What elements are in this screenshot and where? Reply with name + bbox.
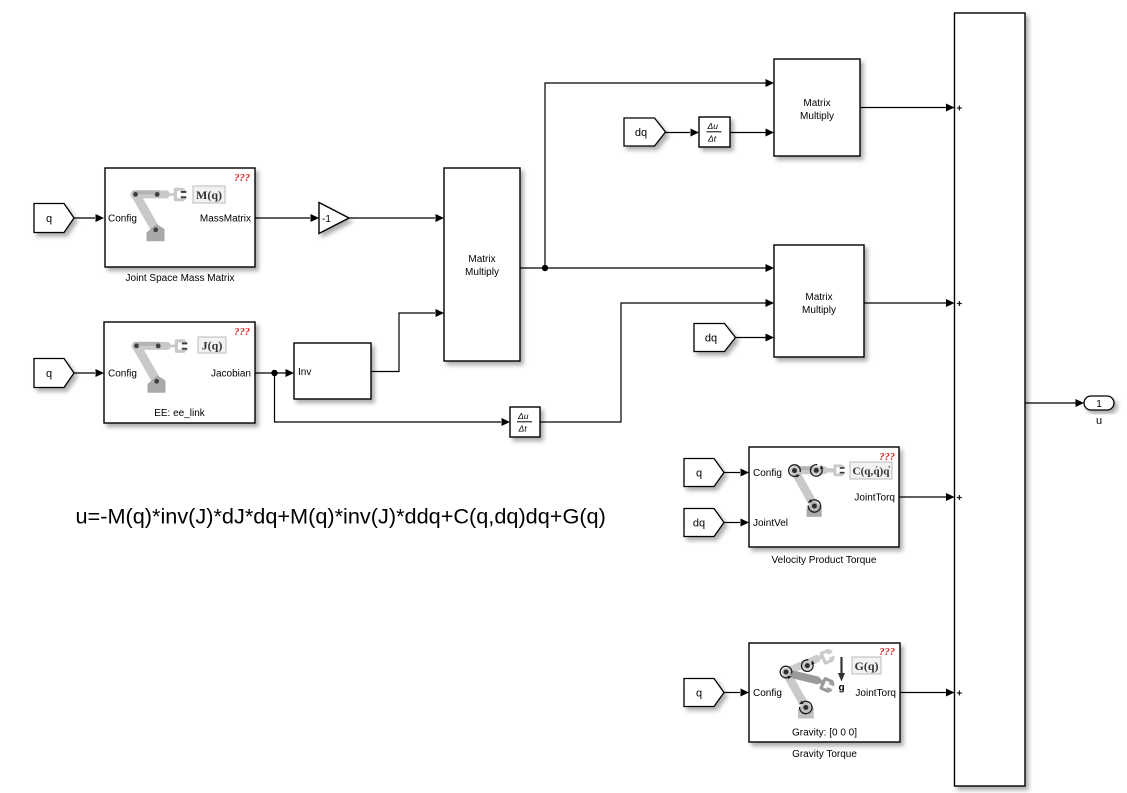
svg-text:Multiply: Multiply [802,305,836,316]
wire q4 to GravityTorque Config [724,689,749,697]
block Velocity Product Torque [749,447,899,547]
svg-text:???: ??? [879,647,895,658]
wire Add to outport u [1025,399,1084,407]
inport dq2 [694,324,736,352]
svg-text:C(q,q)q: C(q,q)q [853,466,891,478]
block Matrix Multiply 3 [774,245,864,357]
block Add (sum) [955,13,1026,786]
wire dq3 to VelocityProductTorque JointVel [724,519,749,527]
svg-text:Gravity Torque: Gravity Torque [792,749,857,760]
svg-text:Multiply: Multiply [465,267,499,278]
svg-text:Matrix: Matrix [803,98,830,109]
svg-text:dq: dq [635,127,647,139]
svg-text:Config: Config [753,468,782,479]
svg-text:q: q [696,468,702,480]
inport q2 [34,359,74,388]
wire MassMatrix to gain [255,214,319,222]
svg-text:-1: -1 [322,214,331,225]
svg-text:Multiply: Multiply [800,111,834,122]
wire derivative1 to MatrixMultiply2 input2 [730,129,774,137]
svg-text:Jacobian: Jacobian [211,369,251,380]
svg-text:dq: dq [693,518,705,530]
derivative block 2 [510,407,540,437]
block Matrix Multiply 1 [444,168,520,361]
svg-text:Gravity: [0 0 0]: Gravity: [0 0 0] [792,728,857,739]
svg-text:1: 1 [1096,399,1102,410]
svg-text:u=-M(q)*inv(J)*dJ*dq+M(q)*inv(: u=-M(q)*inv(J)*dJ*dq+M(q)*inv(J)*ddq+C(q… [76,504,606,529]
svg-text:q: q [696,688,702,700]
wire GravityTorque to Add input4 [900,689,955,697]
svg-text:q: q [46,213,52,225]
wire q1 to JointSpaceMassMatrix [74,214,104,222]
wire q2 to EE block [74,369,104,377]
svg-text:Inv: Inv [298,367,311,378]
inport dq3 [684,509,724,537]
wire Jacobian to Inv [255,369,294,377]
svg-text:Velocity Product Torque: Velocity Product Torque [772,555,877,566]
svg-text:Δu: Δu [517,411,529,421]
gain -1 [319,203,349,234]
wire VelocityProductTorque to Add input3 [899,493,955,501]
inport q4 [684,679,724,707]
svg-text:u: u [1096,415,1102,427]
svg-text:Δt: Δt [707,134,717,144]
junction node Jacobian branch [271,370,277,376]
svg-text:g: g [838,683,844,694]
svg-text:Δu: Δu [707,121,719,131]
block Inv [294,343,371,399]
svg-text:???: ??? [234,327,250,338]
svg-text:Matrix: Matrix [805,292,832,303]
svg-text:M(q): M(q) [196,188,222,202]
svg-text:JointVel: JointVel [753,518,788,529]
svg-text:q: q [46,368,52,380]
wire branch up to MatrixMultiply2 input1 [545,79,774,268]
svg-text:dq: dq [705,333,717,345]
svg-text:Config: Config [753,688,782,699]
block EE: ee_link (Get Jacobian) [104,322,255,423]
junction node MM1 out [542,265,548,271]
wire Jacobian branch down to derivative2 [275,373,511,426]
svg-text:Matrix: Matrix [468,254,495,265]
svg-text:EE: ee_link: EE: ee_link [154,408,206,419]
svg-text:Δt: Δt [518,424,528,434]
wire MatrixMultiply3 to Add input2 [864,299,955,307]
wire dq2 to MatrixMultiply3 input3 [736,334,775,342]
svg-text:???: ??? [879,452,895,463]
wire dq1 to derivative1 [666,129,700,137]
wire q3 to VelocityProductTorque Config [724,469,749,477]
wire gain to MatrixMultiply1 [349,214,444,222]
svg-text:Config: Config [108,369,137,380]
outport 1 u [1084,396,1114,427]
svg-text:???: ??? [234,173,250,184]
svg-text:Joint Space Mass Matrix: Joint Space Mass Matrix [126,273,235,284]
svg-text:G(q): G(q) [855,659,879,673]
gravity arrow g [838,657,845,694]
derivative block 1 [699,117,730,147]
svg-text:Config: Config [108,214,137,225]
svg-text:J(q): J(q) [202,339,223,353]
wire derivative2 to MatrixMultiply3 input2 [540,299,774,422]
inport dq1 [624,118,666,146]
wire Inv to MatrixMultiply1 input2 [371,309,444,372]
svg-text:MassMatrix: MassMatrix [200,214,251,225]
block Gravity Torque [749,643,900,742]
inport q1 [34,204,74,233]
svg-text:JointTorq: JointTorq [854,493,895,504]
inport q3 [684,459,724,487]
block Joint Space Mass Matrix [105,168,255,267]
block Matrix Multiply 2 [774,59,860,156]
wire MatrixMultiply1 out to MatrixMultiply3 input1 [520,264,774,272]
wire MatrixMultiply2 to Add input1 [860,104,955,112]
svg-text:JointTorq: JointTorq [855,688,896,699]
